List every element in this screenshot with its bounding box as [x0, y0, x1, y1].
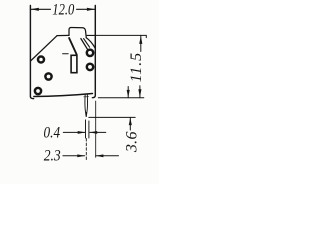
hole upper-left [38, 57, 44, 63]
extension line pin tip [89, 116, 135, 118]
dim line 3.6 upper segment [127, 87, 129, 98]
pin edge tick right [88, 121, 90, 138]
dim line 11.5 upper segment [140, 35, 142, 51]
internal ledge line [63, 53, 69, 55]
arrowhead 3.6 up [129, 118, 132, 125]
arrowhead 3.6 down [127, 90, 130, 98]
hole bottom-left [35, 88, 41, 94]
extension line seat plane [98, 97, 144, 99]
dim line 3.6 lower segment [129, 117, 131, 130]
extension line right / body right edge [92, 6, 95, 98]
dim line 0.4 left [63, 131, 85, 133]
lever inner slant [84, 39, 90, 48]
lever slant right [81, 39, 88, 50]
svg-text:0.4: 0.4 [44, 125, 61, 142]
svg-text:11.5: 11.5 [128, 52, 145, 82]
hole mid-left [45, 73, 51, 79]
pin centerline dashed [85, 139, 87, 162]
arrowhead 2.3 left pointing right [77, 154, 85, 157]
arrowhead 0.4 right pointing left [90, 131, 98, 134]
arrowhead 12.0 left [31, 8, 39, 11]
hole lower-right [87, 64, 93, 70]
pin edge tick left [85, 120, 87, 138]
extension line 11.5 top [95, 35, 146, 37]
arrowhead 12.0 right [87, 8, 95, 11]
dim line 0.4 right [90, 131, 106, 133]
pin dark tip [86, 112, 87, 117]
svg-text:12.0: 12.0 [52, 2, 74, 19]
body top edge left of tab [57, 34, 69, 36]
dim line 2.3 right [96, 155, 119, 157]
extension line left / body left edge [30, 6, 33, 99]
arrowhead 11.5 down [138, 89, 141, 97]
svg-text:3.6: 3.6 [124, 131, 141, 153]
dimension line 12.0 right segment [77, 8, 96, 10]
body top slant edge [31, 36, 58, 61]
body bottom edge [34, 94, 93, 97]
actuator tab outline [69, 28, 86, 38]
dimension line 12.0 left segment [30, 8, 50, 10]
lever slant left [69, 38, 77, 54]
body top edge right of tab [87, 34, 95, 36]
dim line 11.5 lower segment [139, 86, 141, 98]
pin shoulder line [84, 96, 89, 98]
svg-text:2.3: 2.3 [44, 147, 61, 164]
arrowhead 11.5 up [139, 36, 142, 44]
hole upper-right [87, 50, 93, 56]
body edge extension down [95, 101, 97, 157]
lever curve to right edge [86, 38, 95, 48]
dim line 2.3 left [63, 155, 85, 157]
arrowhead 2.3 right pointing left [96, 154, 104, 157]
arrowhead 0.4 left pointing right [78, 131, 86, 134]
terminal pin [85, 94, 88, 117]
slot rectangle [71, 55, 77, 72]
